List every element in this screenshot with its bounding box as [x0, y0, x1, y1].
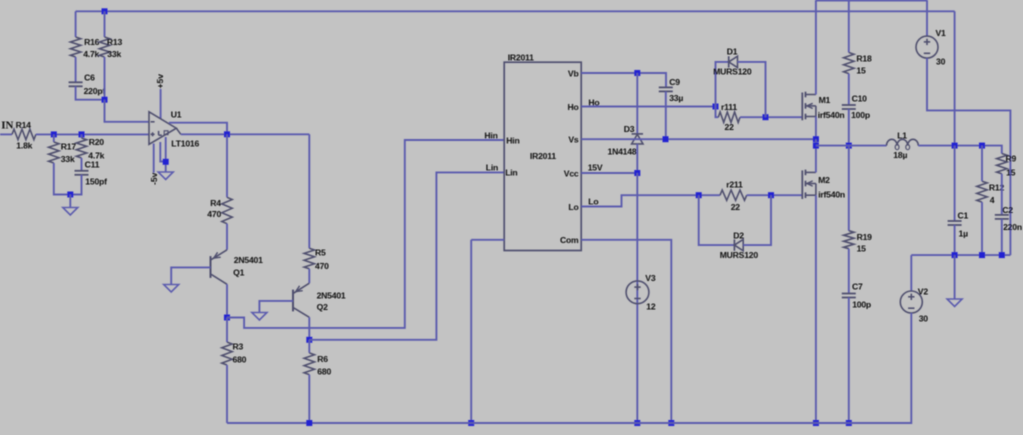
svg-text:LT1016: LT1016	[171, 138, 199, 148]
wire Q2 collector	[308, 317, 310, 340]
wire M1 drain	[815, 0, 817, 95]
resistor R16	[70, 37, 80, 57]
wire opamp output	[181, 133, 309, 135]
svg-text:Ho: Ho	[567, 102, 578, 112]
svg-text:1µ: 1µ	[959, 228, 969, 238]
svg-text:-5v: -5v	[149, 172, 159, 185]
svg-text:15: 15	[1006, 167, 1016, 177]
wire D3 cathode	[636, 73, 638, 134]
svg-text:220pf: 220pf	[84, 86, 106, 96]
node R12 bottom junction	[979, 252, 985, 258]
wire opamp top-edge tap	[169, 123, 227, 135]
svg-text:MURS120: MURS120	[720, 250, 759, 260]
resistor R12	[977, 181, 987, 202]
node C7 rail junction	[846, 420, 852, 426]
node Q2 collector junction	[306, 337, 312, 343]
diode D3 1N4148	[632, 133, 643, 135]
svg-text:33µ: 33µ	[669, 93, 683, 103]
svg-text:1N4148: 1N4148	[608, 146, 637, 156]
node Q1 collector junction	[224, 315, 230, 321]
wire ground stem input filter	[69, 195, 71, 208]
wire R18 top	[848, 0, 850, 53]
inductor L1	[887, 139, 919, 145]
wire Q1 base to ground	[171, 267, 210, 284]
wire C6 bottom to node	[76, 86, 105, 99]
svg-text:Lin: Lin	[505, 168, 517, 178]
transistor M1 irf540n	[801, 93, 803, 121]
svg-text:U1: U1	[171, 110, 182, 120]
svg-text:D1: D1	[727, 47, 738, 57]
wire R19 to C7	[848, 249, 850, 294]
ground Q1 base	[164, 285, 179, 293]
svg-text:4: 4	[990, 195, 995, 205]
wire R12 bottom	[981, 202, 983, 255]
wire Q1 collector	[226, 284, 228, 317]
wire r211 to gate node	[747, 194, 803, 196]
ground input filter	[63, 208, 78, 216]
svg-text:100p: 100p	[852, 300, 871, 310]
svg-text:Vb: Vb	[568, 68, 579, 78]
transistor Q1 2N5401	[210, 256, 212, 278]
svg-text:C10: C10	[852, 93, 868, 103]
svg-text:C11: C11	[85, 160, 100, 170]
wire D2 left leg	[699, 195, 735, 245]
resistor R6	[304, 353, 314, 375]
wire R3 to bottom rail	[226, 365, 228, 423]
svg-text:680: 680	[233, 355, 247, 365]
wire R9 to C2	[1001, 174, 1003, 215]
svg-text:V2: V2	[918, 287, 929, 297]
wire Q1 to R3	[226, 318, 228, 343]
node Ho junction	[713, 104, 719, 110]
wire OUT to C1	[954, 146, 956, 221]
wire Vcc row	[581, 172, 637, 174]
wire R20 top	[81, 134, 83, 138]
svg-text:IN: IN	[1, 120, 13, 132]
wire R16 to C6	[75, 57, 77, 82]
svg-text:33k: 33k	[107, 49, 121, 59]
op-amp U2 IR2011 box	[504, 62, 581, 250]
svg-text:V1: V1	[936, 28, 947, 38]
wire +5v supply	[160, 89, 162, 119]
node R12 top junction	[979, 143, 985, 149]
capacitor C7	[842, 293, 856, 295]
capacitor C11	[75, 170, 89, 172]
wire R14 to opamp + input	[36, 133, 149, 135]
svg-text:r211: r211	[726, 180, 743, 190]
node R6 rail junction	[306, 420, 312, 426]
svg-text:15V: 15V	[588, 162, 603, 172]
wire R6 to bottom rail	[308, 375, 310, 423]
resistor R3	[222, 342, 232, 365]
ground opamp	[158, 172, 173, 180]
wire R12 top	[981, 146, 983, 182]
wire L1 to OUT node	[918, 146, 1002, 154]
wire divider to inverting input	[105, 100, 149, 122]
wire R4 to Q1 emitter	[226, 224, 228, 250]
wire R13 bottom	[104, 57, 106, 100]
svg-text:2N5401: 2N5401	[234, 255, 263, 265]
node divider junction	[102, 97, 108, 103]
node M2 drain junction	[813, 143, 819, 149]
svg-text:irf540n: irf540n	[818, 189, 845, 199]
node C10 Vs junction	[846, 143, 852, 149]
wire top HV rail (V1+ to M1 drain)	[816, 0, 927, 2]
svg-text:15: 15	[856, 66, 866, 76]
svg-text:15: 15	[857, 244, 867, 254]
ground output	[947, 299, 962, 307]
diode D2 MURS120	[733, 239, 735, 250]
svg-text:M2: M2	[818, 175, 830, 185]
node Com right rail junction	[668, 420, 674, 426]
svg-text:R18: R18	[856, 53, 872, 63]
wire R13 top	[104, 11, 106, 37]
svg-text:IR2011: IR2011	[530, 151, 556, 161]
resistor R4	[222, 197, 232, 223]
diode D1 MURS120	[728, 56, 730, 67]
wire Vs to R19	[848, 146, 850, 231]
svg-text:V3: V3	[645, 273, 656, 283]
svg-text:30: 30	[936, 57, 946, 67]
resistor R20	[76, 138, 86, 158]
node opamp output junction	[224, 131, 230, 137]
svg-text:R13: R13	[107, 37, 123, 47]
wire R5 to Q2 emitter	[308, 269, 310, 283]
wire M2 source to rail	[815, 195, 817, 423]
wire D1 left leg	[716, 62, 729, 107]
transistor Q2 2N5401	[292, 290, 294, 312]
svg-text:18µ: 18µ	[893, 150, 907, 160]
resistor R18	[844, 53, 854, 74]
svg-text:C7: C7	[852, 282, 863, 292]
svg-text:C6: C6	[84, 73, 95, 83]
svg-text:IR2011: IR2011	[508, 53, 534, 63]
svg-text:R3: R3	[233, 341, 244, 351]
wire Lo row	[581, 195, 720, 206]
wire opamp V- lead	[153, 144, 155, 173]
capacitor C6	[69, 81, 83, 83]
wire Q2 to Lin	[309, 172, 504, 339]
resistor R9	[997, 154, 1007, 174]
svg-text:4.7k: 4.7k	[83, 49, 99, 59]
svg-text:Q2: Q2	[317, 302, 328, 312]
svg-text:R14: R14	[16, 120, 32, 130]
svg-text:M1: M1	[819, 95, 831, 105]
resistor R17	[49, 142, 59, 163]
node M2 source rail junction	[813, 420, 819, 426]
transistor M2 irf540n	[801, 170, 803, 199]
svg-text:Hin: Hin	[506, 135, 519, 145]
node C2 bottom junction	[999, 252, 1005, 258]
wire V2 top	[910, 255, 912, 291]
svg-text:Lo: Lo	[568, 202, 578, 212]
svg-text:Com: Com	[560, 235, 579, 245]
wire Vb row	[581, 73, 666, 87]
svg-text:L1: L1	[897, 131, 907, 141]
svg-text:12: 12	[646, 301, 656, 311]
resistor R5	[304, 248, 314, 268]
node C1 bottom junction	[952, 252, 958, 258]
svg-text:C2: C2	[1002, 205, 1013, 215]
wire Ho row	[581, 106, 715, 108]
wire Vs row	[581, 138, 816, 140]
wire Vcc to V3	[636, 173, 638, 423]
node Vb junction	[634, 70, 640, 76]
capacitor C10	[842, 104, 856, 106]
capacitor C1	[948, 220, 962, 222]
wire C10 to Vs	[848, 109, 850, 146]
resistor r211	[720, 190, 747, 200]
voltage source V3 12	[626, 281, 649, 304]
node C9-Vs junction	[663, 136, 669, 142]
wire C7 to rail	[848, 298, 850, 424]
svg-text:C9: C9	[669, 77, 680, 87]
wire C1 to node	[954, 225, 956, 255]
wire C9 bottom to Vs	[665, 91, 667, 139]
wire Q2 base to ground	[259, 301, 293, 313]
svg-text:D2: D2	[733, 231, 744, 241]
svg-text:1.8k: 1.8k	[16, 140, 32, 150]
svg-text:R6: R6	[317, 354, 328, 364]
node opamp gnd junction	[163, 159, 169, 165]
svg-text:Ho: Ho	[588, 97, 599, 107]
svg-text:Lo: Lo	[588, 197, 598, 207]
wire Q2 to R6	[308, 340, 310, 353]
op-amp U1 LT1016	[149, 112, 176, 145]
voltage source V1 30	[916, 36, 938, 58]
node V3 bottom rail junction	[634, 420, 640, 426]
wire Ho jog down	[716, 107, 719, 118]
wire R17 top	[53, 134, 55, 142]
wire opamp gnd pins	[160, 142, 165, 162]
resistor R14	[12, 129, 36, 139]
node OUT junction	[952, 143, 958, 149]
resistor R13	[99, 37, 109, 57]
node OUT junction at R13 top	[102, 8, 108, 14]
node r111 right junction	[763, 114, 769, 120]
svg-text:Vcc: Vcc	[564, 168, 579, 178]
svg-text:Lin: Lin	[486, 162, 498, 172]
node Vcc junction	[634, 170, 640, 176]
svg-text:irf540n: irf540n	[818, 110, 845, 120]
capacitor C9	[659, 86, 673, 88]
wire Com left leg	[471, 239, 504, 241]
wire D1 right leg	[738, 62, 766, 117]
svg-text:R9: R9	[1006, 153, 1017, 163]
node r211 right junction	[768, 192, 774, 198]
wire OUT feedback right vertical	[954, 11, 956, 145]
node ground junction input filter	[67, 192, 73, 198]
ground Q2 base	[252, 313, 267, 321]
svg-text:220n: 220n	[1003, 222, 1022, 232]
wire R17 bottom	[54, 163, 71, 195]
wire OUT feedback rail	[76, 10, 955, 12]
svg-text:Vs: Vs	[568, 134, 579, 144]
svg-text:R20: R20	[89, 137, 105, 147]
resistor r111	[718, 112, 740, 122]
svg-text:MURS120: MURS120	[713, 67, 752, 77]
wire ground stem output	[954, 255, 956, 299]
wire output to R4	[226, 134, 228, 197]
svg-text:22: 22	[731, 202, 741, 212]
wire R20 to C11	[81, 158, 83, 171]
svg-text:22: 22	[725, 122, 735, 132]
svg-text:100p: 100p	[851, 110, 870, 120]
wire V1 bottom	[927, 58, 1010, 255]
wire output to R5	[308, 134, 310, 248]
node M1 source junction	[813, 136, 819, 142]
wire Com right leg	[581, 240, 671, 423]
wire IN stub	[0, 133, 12, 135]
svg-text:2N5401: 2N5401	[317, 291, 346, 301]
resistor R19	[844, 231, 854, 249]
wire M1 source	[815, 117, 817, 140]
node Lo junction left	[696, 192, 702, 198]
wire V2 bottom to rail	[227, 313, 911, 423]
wire Q1 to Hin	[227, 140, 504, 328]
svg-text:r111: r111	[721, 102, 737, 112]
svg-text:30: 30	[919, 314, 929, 324]
wire D2 right leg	[743, 195, 771, 245]
node junction R20 top	[79, 131, 85, 137]
svg-text:Q1: Q1	[233, 267, 244, 277]
svg-text:470: 470	[315, 261, 329, 271]
wire bottom node row	[911, 254, 1010, 256]
node Com left rail junction	[468, 420, 474, 426]
wire D3 anode to Vcc	[636, 144, 638, 173]
node junction R17 top	[51, 131, 57, 137]
svg-text:33k: 33k	[61, 154, 75, 164]
wire C2 to node	[1001, 219, 1003, 255]
wire R16 top	[75, 11, 77, 37]
svg-text:150pf: 150pf	[85, 177, 107, 187]
svg-text:Hin: Hin	[484, 130, 497, 140]
wire r111 to gate node	[740, 116, 802, 118]
wire R18 to C10	[848, 74, 850, 105]
voltage source V2 30	[900, 291, 922, 313]
capacitor C2	[995, 214, 1009, 216]
wire Vs segment B	[816, 145, 887, 147]
svg-text:680: 680	[317, 367, 331, 377]
wire V1 top	[926, 0, 928, 36]
svg-text:R5: R5	[315, 248, 326, 258]
svg-text:R19: R19	[857, 232, 873, 242]
wire C11 bottom	[70, 175, 81, 195]
wire M2 drain	[815, 139, 817, 172]
svg-text:C1: C1	[958, 211, 969, 221]
svg-text:R4: R4	[210, 198, 221, 208]
svg-text:D3: D3	[624, 124, 635, 134]
svg-text:+5v: +5v	[155, 74, 165, 89]
svg-text:470: 470	[207, 209, 221, 219]
